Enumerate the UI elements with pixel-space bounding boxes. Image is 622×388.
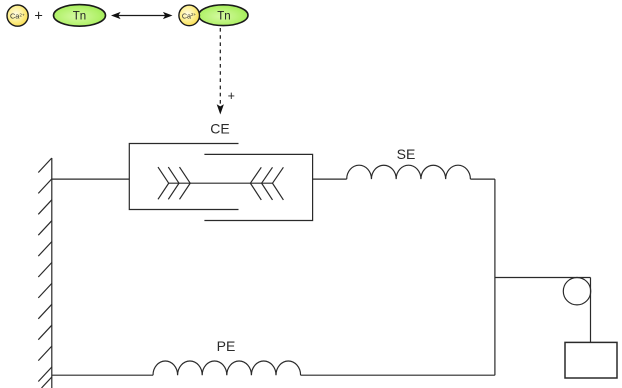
pulley (563, 278, 590, 305)
wall line (51, 158, 53, 388)
crossbridge chevron 3 (180, 167, 191, 199)
wire node to pulley (495, 277, 591, 279)
svg-text:Tn: Tn (217, 10, 230, 22)
load mass (565, 342, 617, 378)
wire PE to node (301, 374, 495, 376)
CE left filament fork (129, 144, 238, 210)
crossbridge chevron 1 (158, 167, 169, 199)
double-headed arrow (equilibrium) (111, 12, 173, 19)
yellow circle Ca2+ (free calcium) (7, 5, 28, 26)
wire CE to SE (313, 178, 347, 180)
right vertical wire (494, 179, 496, 375)
spring SE (347, 165, 471, 179)
crossbridge chevron 6 (273, 167, 284, 200)
crossbridge chevron 5 (262, 167, 273, 200)
crossbridge chevron 4 (250, 167, 261, 200)
svg-text:Tn: Tn (73, 11, 86, 23)
green ellipse Tn (free troponin) (54, 5, 106, 27)
svg-text:CE: CE (210, 121, 229, 137)
svg-text:+: + (34, 8, 42, 24)
yellow circle Ca2+ (bound calcium) (179, 5, 200, 26)
CE myosin rod (169, 182, 273, 184)
wire wall to CE (52, 178, 130, 180)
dashed activation arrow (217, 28, 224, 115)
crossbridge chevron 2 (168, 167, 179, 199)
svg-text:SE: SE (397, 146, 416, 162)
green ellipse Tn (bound complex) (199, 5, 248, 26)
wire SE to node (470, 178, 495, 180)
CE right filament fork (204, 154, 312, 220)
svg-text:PE: PE (217, 338, 236, 354)
svg-text:+: + (228, 89, 235, 103)
spring PE (153, 361, 301, 375)
rope to load (590, 278, 592, 343)
wall hatching (38, 158, 52, 388)
wire wall to PE (52, 374, 153, 376)
